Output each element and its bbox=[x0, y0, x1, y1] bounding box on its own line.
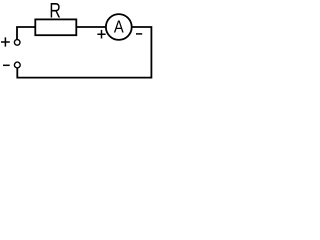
- sign at input bbox=[3, 64, 10, 66]
ammeter U1 bbox=[106, 14, 132, 40]
+ sign at input bbox=[1, 37, 10, 46]
svg-text:R: R bbox=[49, 0, 60, 23]
wire from + terminal up and right to resistor bbox=[17, 27, 35, 39]
wire resistor right lead to ammeter bbox=[76, 26, 106, 28]
resistor R bbox=[35, 19, 76, 35]
+ input terminal bbox=[14, 40, 20, 46]
ammeter + polarity mark bbox=[97, 30, 105, 39]
ammeter - polarity mark bbox=[136, 33, 142, 35]
wire ammeter right, down right side, along bottom, up to - terminal bbox=[17, 27, 151, 78]
- input terminal bbox=[14, 62, 20, 68]
svg-text:A: A bbox=[114, 17, 124, 37]
